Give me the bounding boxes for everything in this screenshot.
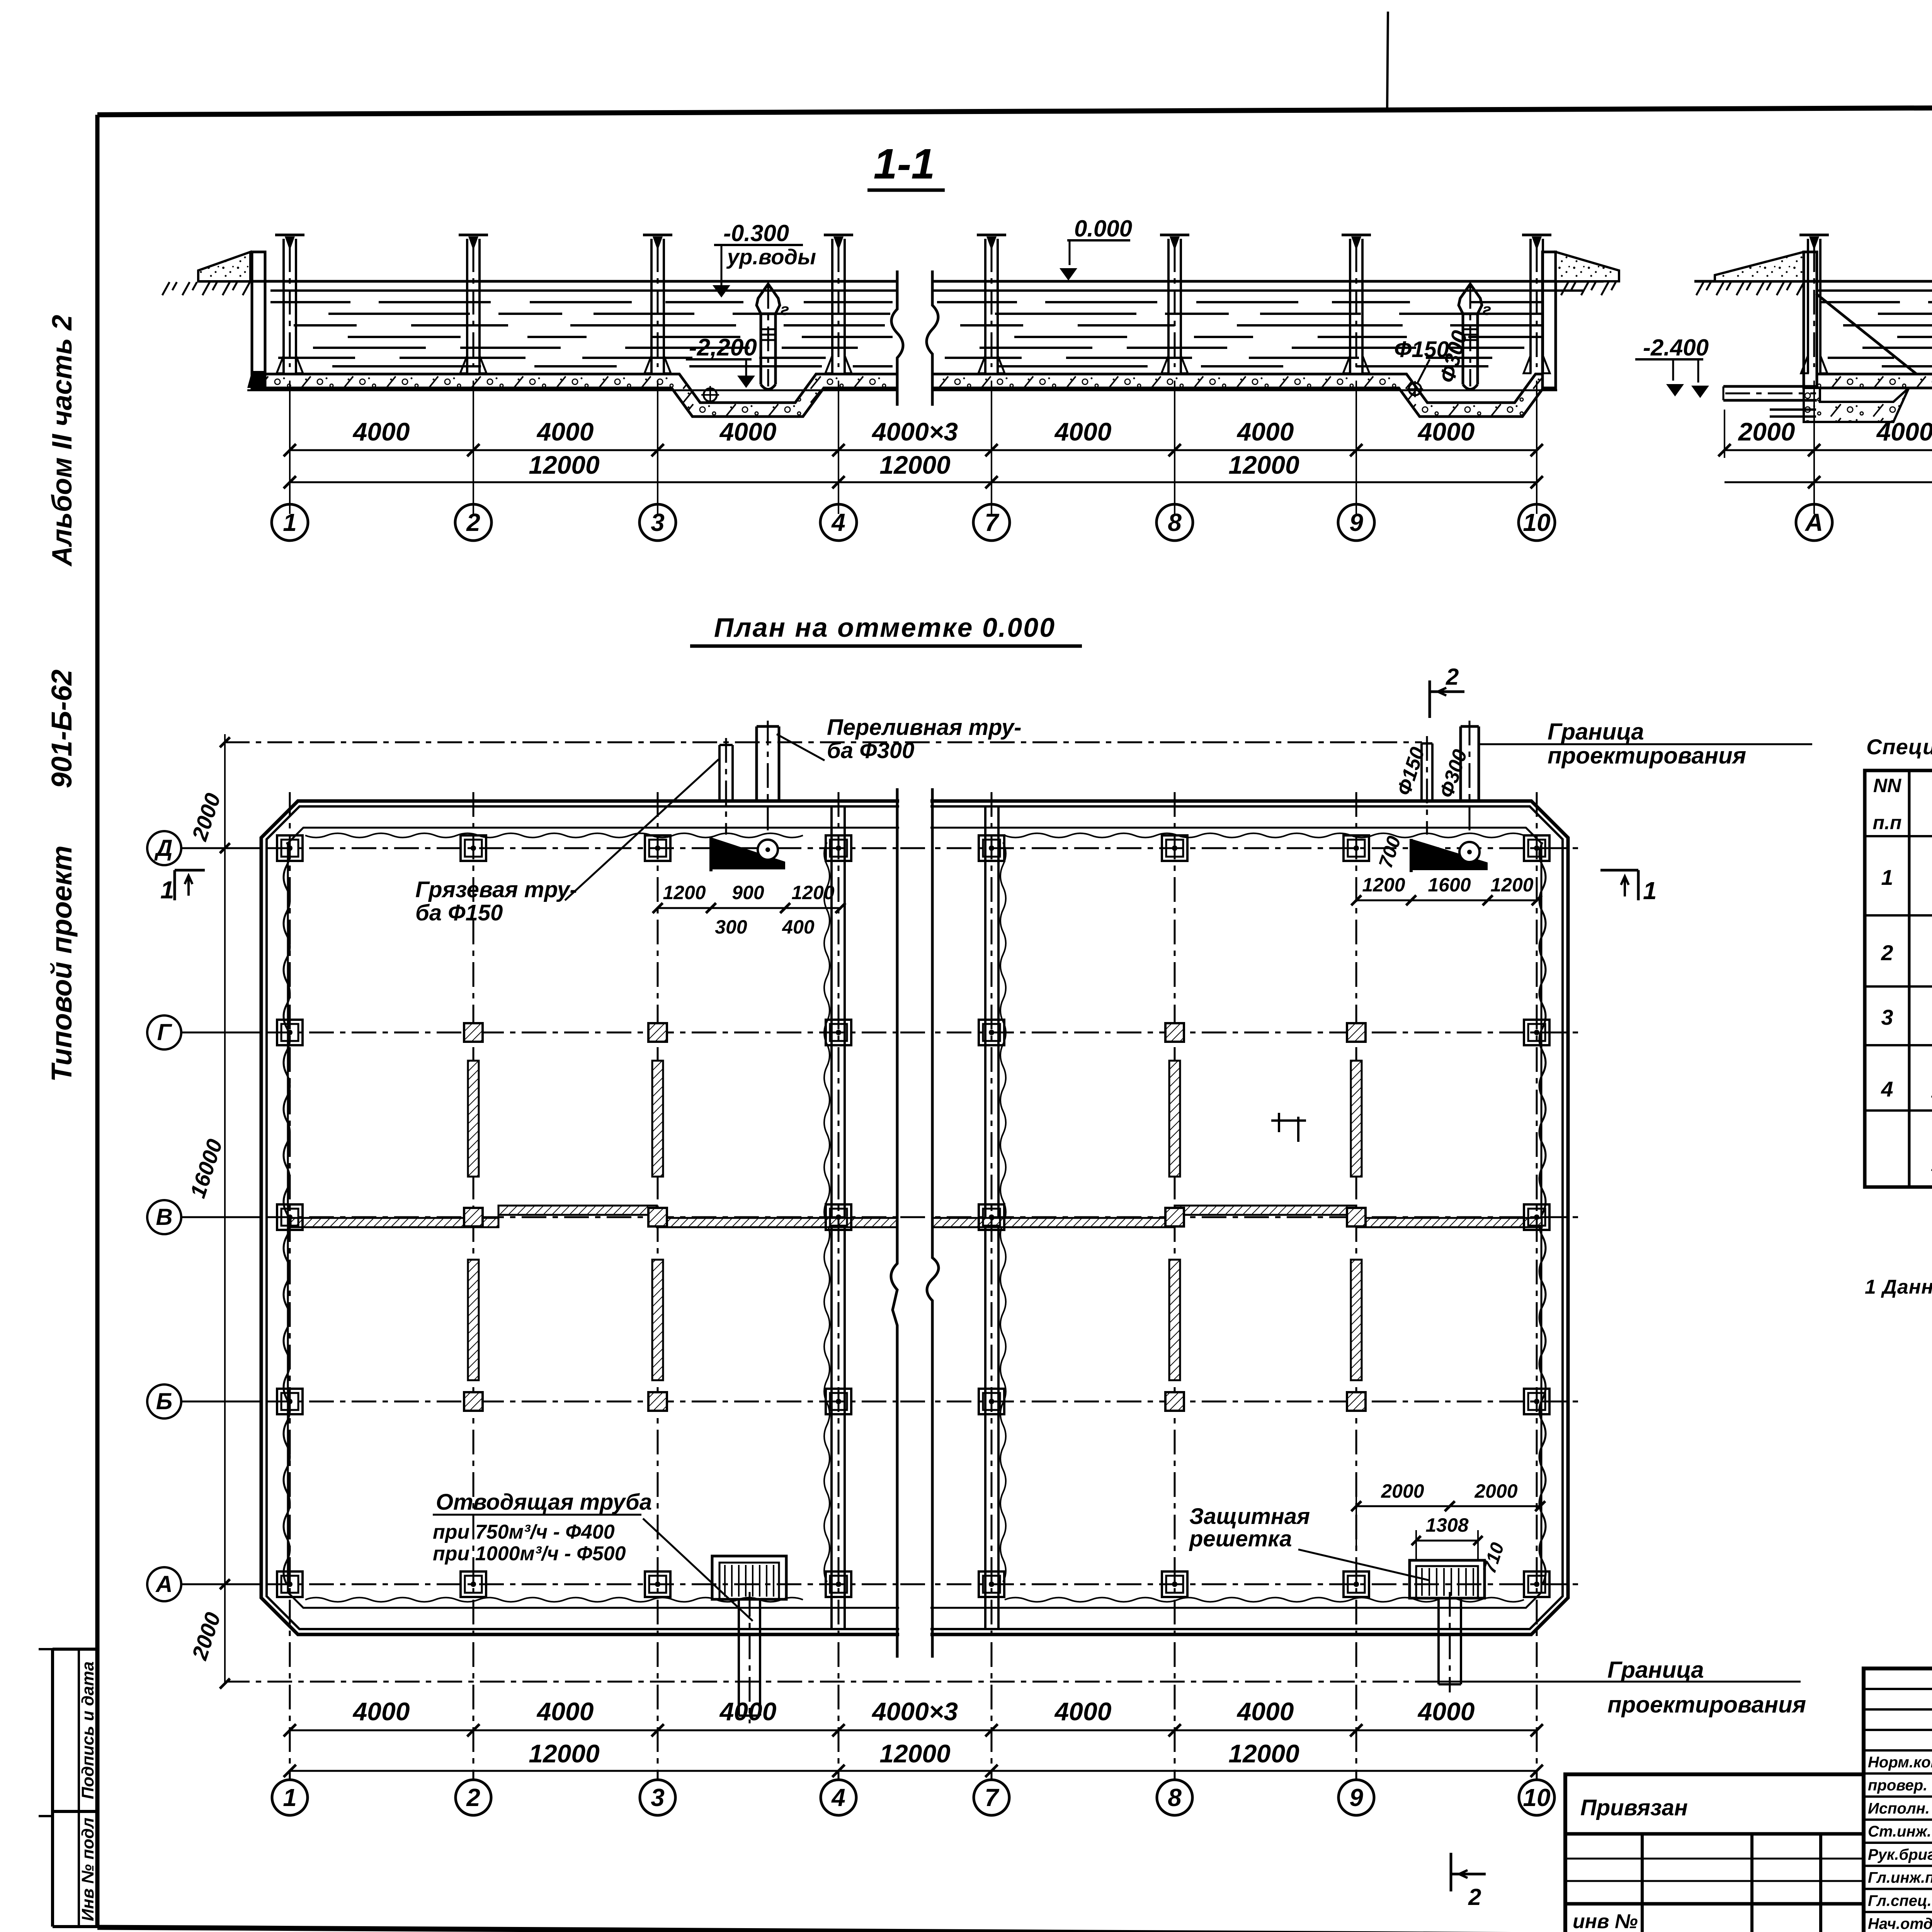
svg-text:-2,200: -2,200 bbox=[689, 334, 757, 361]
water hatching left half bbox=[270, 301, 350, 303]
wavy water edge bottom bbox=[305, 1598, 803, 1602]
column at axis x=2170 bbox=[831, 239, 833, 373]
svg-text:1 Данный лист смотрите совмест: 1 Данный лист смотрите совместно с листа… bbox=[1865, 1276, 1932, 1298]
svg-text:1: 1 bbox=[283, 1784, 297, 1811]
svg-text:4000: 4000 bbox=[1236, 1697, 1294, 1726]
ground / basin top line bbox=[198, 280, 897, 283]
svg-text:Ст.инж.: Ст.инж. bbox=[1868, 1823, 1931, 1840]
svg-text:2: 2 bbox=[1881, 940, 1893, 965]
svg-text:4000: 4000 bbox=[352, 1697, 410, 1726]
svg-text:Исполн.: Исполн. bbox=[1868, 1800, 1930, 1817]
svg-text:1: 1 bbox=[160, 876, 174, 904]
svg-text:8: 8 bbox=[1168, 1784, 1182, 1811]
svg-text:2: 2 bbox=[1468, 1884, 1481, 1910]
right earth berm bbox=[1556, 252, 1619, 281]
svg-text:1200: 1200 bbox=[791, 882, 834, 903]
svg-text:Г: Г bbox=[157, 1019, 173, 1045]
svg-text:4000: 4000 bbox=[1054, 1697, 1112, 1726]
left margin bottom boxes bbox=[53, 1648, 97, 1651]
svg-text:2000: 2000 bbox=[1474, 1480, 1517, 1502]
plan axis lines bbox=[182, 847, 1584, 849]
svg-text:4000: 4000 bbox=[1054, 417, 1112, 446]
svg-text:Привязан: Привязан bbox=[1580, 1795, 1688, 1820]
dimension line 12000s section 1-1 bbox=[290, 481, 1537, 483]
section 2-2 bbox=[1666, 140, 1932, 541]
svg-text:12000: 12000 bbox=[879, 1739, 951, 1768]
basin floor slab right half with pit bbox=[932, 374, 1543, 417]
drain symbol right pit (f150) bbox=[1409, 383, 1421, 395]
central break lines bbox=[891, 788, 897, 1658]
svg-text:Рук.бриг.: Рук.бриг. bbox=[1868, 1846, 1932, 1863]
svg-text:3: 3 bbox=[651, 509, 665, 536]
svg-text:1200: 1200 bbox=[663, 882, 706, 903]
column at axis x=3977 bbox=[1529, 239, 1532, 373]
svg-text:проектирования: проектирования bbox=[1548, 743, 1746, 769]
left wall section 2-2 bbox=[1804, 252, 1817, 388]
plan bottom dimensions bbox=[290, 1730, 1537, 1731]
plan left dimensions bbox=[225, 742, 1422, 743]
column at axis x=3040 bbox=[1167, 239, 1170, 373]
overflow pipe stubs F150/F300 top left bbox=[718, 745, 721, 801]
local dims 1200 1600 1200 right bbox=[1356, 900, 1537, 901]
section marker 2 bottom bbox=[1450, 1853, 1452, 1891]
svg-text:Типовой проект: Типовой проект bbox=[46, 845, 78, 1082]
svg-text:7: 7 bbox=[985, 1784, 1000, 1811]
central break masking bbox=[899, 788, 930, 1658]
svg-text:1308: 1308 bbox=[1425, 1514, 1468, 1536]
svg-text:при 1000м³/ч - Ф500: при 1000м³/ч - Ф500 bbox=[433, 1543, 626, 1565]
privyazan table bbox=[1565, 1774, 1864, 1932]
svg-text:г: г bbox=[781, 300, 789, 318]
svg-text:г: г bbox=[1483, 300, 1491, 318]
signature table frame bbox=[1864, 1668, 1932, 1932]
svg-text:4: 4 bbox=[1881, 1077, 1893, 1101]
svg-text:4: 4 bbox=[831, 1784, 845, 1811]
svg-text:4000×3: 4000×3 bbox=[871, 417, 958, 446]
section marker 1 right bbox=[1600, 869, 1638, 872]
svg-text:1200: 1200 bbox=[1490, 874, 1533, 896]
svg-text:Норм.конт: Норм.конт bbox=[1868, 1754, 1932, 1771]
svg-text:4000: 4000 bbox=[536, 417, 594, 446]
svg-text:300: 300 bbox=[715, 916, 747, 938]
water surface line bbox=[270, 289, 897, 292]
overflow pipe stubs F150/F300 top right bbox=[1420, 743, 1423, 801]
svg-text:NN: NN bbox=[1873, 775, 1901, 796]
left basin wall bbox=[252, 252, 265, 388]
svg-text:проектирования: проектирования bbox=[1607, 1692, 1806, 1718]
svg-text:Подпись и дата: Подпись и дата bbox=[78, 1662, 97, 1799]
svg-text:10: 10 bbox=[1523, 1784, 1550, 1811]
dimension line section 2-2 bbox=[1725, 449, 1932, 451]
svg-text:Граница: Граница bbox=[1607, 1657, 1704, 1683]
axis circles section 2-2 bbox=[1796, 504, 1832, 541]
svg-text:2: 2 bbox=[466, 509, 480, 536]
ground line bbox=[1694, 280, 1932, 283]
svg-text:1200: 1200 bbox=[1362, 874, 1405, 896]
water hatching right half bbox=[937, 301, 1017, 303]
svg-text:Переливная тру-: Переливная тру- bbox=[827, 715, 1022, 740]
svg-text:0.000: 0.000 bbox=[1074, 216, 1132, 241]
wavy water edge top bbox=[305, 833, 803, 838]
column at axis x=1225 bbox=[466, 239, 468, 373]
outlet grate left bbox=[712, 1556, 786, 1599]
right basin wall bbox=[1543, 252, 1556, 388]
svg-text:Отводящая труба: Отводящая труба bbox=[436, 1490, 652, 1515]
svg-text:В: В bbox=[156, 1204, 172, 1230]
dims 2000 2000 right bottom bbox=[1356, 1505, 1540, 1507]
svg-text:2000: 2000 bbox=[1738, 417, 1795, 446]
basin outer wall outline bbox=[261, 801, 1568, 1634]
column at axis x=2566 bbox=[984, 239, 986, 373]
weir beam along axis В bbox=[291, 1218, 498, 1227]
svg-text:п.п: п.п bbox=[1873, 812, 1902, 833]
second level arrow under -2.400 bbox=[1672, 359, 1674, 381]
svg-text:провер.: провер. bbox=[1868, 1777, 1927, 1794]
pipe outlet circle left bbox=[758, 840, 778, 860]
svg-text:Граница: Граница bbox=[1548, 719, 1644, 745]
svg-text:1600: 1600 bbox=[1428, 874, 1471, 896]
svg-text:решетка: решетка bbox=[1189, 1526, 1292, 1551]
dimension line 16000 bbox=[1725, 481, 1932, 483]
svg-text:4: 4 bbox=[831, 509, 845, 536]
section 1-1 bbox=[162, 140, 1709, 541]
svg-text:4000: 4000 bbox=[1876, 417, 1932, 446]
svg-text:Б: Б bbox=[156, 1388, 172, 1414]
left earth berm bbox=[198, 252, 250, 281]
water hatching section 2-2 bbox=[1820, 301, 1900, 303]
svg-text:2000: 2000 bbox=[1381, 1480, 1424, 1502]
svg-text:Д: Д bbox=[154, 835, 172, 861]
svg-text:12000: 12000 bbox=[529, 451, 600, 479]
interior hatched column squares bbox=[464, 1023, 483, 1042]
svg-text:12000: 12000 bbox=[529, 1739, 600, 1768]
page border frame bbox=[97, 105, 1932, 115]
plan bottom axis circles bbox=[272, 1780, 308, 1815]
svg-text:4000: 4000 bbox=[536, 1697, 594, 1726]
left berm section 2-2 bbox=[1715, 252, 1804, 281]
svg-text:4000: 4000 bbox=[1417, 1697, 1475, 1726]
svg-text:3: 3 bbox=[1881, 1005, 1893, 1029]
svg-text:12000: 12000 bbox=[1228, 451, 1299, 479]
column at axis x=4695 bbox=[1807, 239, 1809, 373]
svg-text:ур.воды: ур.воды bbox=[726, 245, 816, 269]
svg-text:1: 1 bbox=[283, 509, 297, 536]
outlet grate right (zashchitnaya reshetka) bbox=[1410, 1560, 1485, 1598]
granitsa proektirovaniya bottom right bbox=[1430, 1681, 1801, 1683]
svg-text:ба Ф150: ба Ф150 bbox=[415, 900, 503, 925]
top fold mark bbox=[1387, 12, 1388, 109]
floor slab section 2-2 bbox=[1817, 374, 1932, 388]
svg-text:А: А bbox=[1804, 509, 1823, 536]
local dims 1200 900 1200 left bbox=[658, 907, 840, 909]
outlet pipe right bbox=[1437, 1598, 1440, 1684]
interior hatched wall bars bbox=[468, 1061, 479, 1177]
svg-text:Нач.отд.: Нач.отд. bbox=[1868, 1915, 1932, 1932]
title block bbox=[1565, 1668, 1932, 1932]
svg-text:Инв № подл: Инв № подл bbox=[78, 1818, 97, 1921]
svg-text:9: 9 bbox=[1349, 509, 1363, 536]
basin floor slab left half with pit bbox=[265, 374, 897, 417]
svg-text:-0.300: -0.300 bbox=[723, 220, 789, 246]
svg-text:7: 7 bbox=[985, 509, 1000, 536]
svg-text:2: 2 bbox=[1446, 664, 1459, 690]
svg-text:-2.400: -2.400 bbox=[1643, 335, 1709, 361]
left end pit section 2-2 bbox=[1804, 388, 1909, 422]
svg-text:12000: 12000 bbox=[1228, 1739, 1299, 1768]
dim 1308 bbox=[1416, 1540, 1478, 1542]
svg-text:1: 1 bbox=[1881, 865, 1893, 889]
wavy water edge right bbox=[1539, 842, 1546, 1584]
svg-text:900: 900 bbox=[732, 882, 764, 903]
svg-text:4000: 4000 bbox=[352, 417, 410, 446]
dimension line 4000s section 1-1 bbox=[290, 449, 1537, 451]
partition wall at axis 4 bbox=[830, 808, 833, 1628]
svg-text:4000: 4000 bbox=[1236, 417, 1294, 446]
svg-text:Альбом II часть 2: Альбом II часть 2 bbox=[47, 315, 78, 567]
section marker 1 left bbox=[175, 869, 205, 872]
left inlet pipe bbox=[1723, 385, 1817, 388]
column at axis x=3510 bbox=[1349, 239, 1351, 373]
svg-text:Защитная: Защитная bbox=[1189, 1504, 1310, 1529]
svg-text:10: 10 bbox=[1523, 509, 1550, 536]
outlet pipe left bbox=[738, 1599, 740, 1716]
svg-text:Гл.спец.: Гл.спец. bbox=[1868, 1892, 1932, 1909]
edge column squares with dots bbox=[277, 835, 303, 861]
svg-text:Грязевая тру-: Грязевая тру- bbox=[415, 877, 577, 902]
svg-text:1-1: 1-1 bbox=[874, 140, 935, 188]
drain symbol left pit bbox=[704, 388, 717, 401]
svg-text:инв №: инв № bbox=[1573, 1910, 1638, 1932]
wavy water edge left bbox=[284, 842, 290, 1584]
svg-text:400: 400 bbox=[782, 916, 815, 938]
svg-text:8: 8 bbox=[1168, 509, 1182, 536]
svg-text:План на отметке 0.000: План на отметке 0.000 bbox=[714, 612, 1056, 643]
svg-text:3: 3 bbox=[651, 1784, 665, 1811]
pipe outlet circle right bbox=[1459, 842, 1480, 862]
svg-text:Спецификация изделий на водопр: Спецификация изделий на водопроводное об… bbox=[1866, 735, 1932, 759]
axis circles section 1-1 bbox=[272, 504, 308, 541]
svg-text:1: 1 bbox=[1643, 877, 1657, 905]
svg-text:при 750м³/ч - Ф400: при 750м³/ч - Ф400 bbox=[433, 1521, 615, 1543]
diagonal strut left wall bbox=[1816, 294, 1917, 374]
bench mark symbol bbox=[1271, 1119, 1306, 1122]
svg-text:9: 9 bbox=[1349, 1784, 1363, 1811]
specification table bbox=[1865, 735, 1932, 1298]
overflow pipe at x=1988 bbox=[757, 284, 780, 314]
column at axis x=1702 bbox=[650, 239, 653, 373]
svg-text:4000×3: 4000×3 bbox=[871, 1697, 958, 1726]
black weir triangle left bbox=[711, 837, 785, 869]
svg-text:4000: 4000 bbox=[719, 417, 777, 446]
svg-text:4000: 4000 bbox=[719, 1697, 777, 1726]
black weir triangle right bbox=[1411, 839, 1488, 870]
svg-text:2: 2 bbox=[466, 1784, 480, 1811]
svg-text:12000: 12000 bbox=[879, 451, 951, 479]
break lines section 1-1 bbox=[891, 270, 903, 406]
overflow pipe at x=3805 bbox=[1459, 284, 1482, 314]
svg-text:Гл.инж.пр: Гл.инж.пр bbox=[1868, 1869, 1932, 1886]
section marker 2 top bbox=[1429, 680, 1431, 718]
plan left axis circles bbox=[147, 831, 181, 865]
basin inner wall line bbox=[288, 828, 1541, 1608]
partition wall at axis 7 bbox=[984, 808, 986, 1628]
svg-text:4000: 4000 bbox=[1417, 417, 1475, 446]
plan view bbox=[147, 664, 1812, 1910]
svg-text:901-Б-62: 901-Б-62 bbox=[46, 670, 78, 788]
granitsa proektirovaniya top right bbox=[1480, 743, 1812, 745]
svg-text:А: А bbox=[155, 1571, 172, 1597]
column at axis x=750 bbox=[282, 239, 285, 373]
